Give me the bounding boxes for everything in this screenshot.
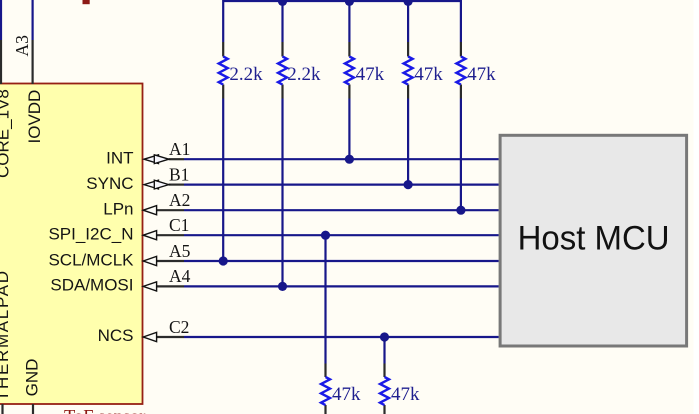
svg-text:A5: A5 [169,241,191,261]
svg-text:C1: C1 [169,215,189,235]
svg-text:47k: 47k [332,384,361,405]
svg-text:SCL/MCLK: SCL/MCLK [48,250,134,269]
svg-text:47k: 47k [356,64,385,85]
svg-text:B1: B1 [169,164,189,184]
svg-text:SDA/MOSI: SDA/MOSI [50,276,133,295]
svg-text:A1: A1 [169,139,190,159]
svg-text:LPn: LPn [103,199,133,218]
svg-text:SPI_I2C_N: SPI_I2C_N [48,224,133,243]
svg-text:C2: C2 [169,317,189,337]
svg-text:GND: GND [23,359,42,397]
svg-text:SYNC: SYNC [86,174,133,193]
svg-text:CORE_1V8: CORE_1V8 [0,89,13,178]
svg-text:2.2k: 2.2k [229,64,263,85]
svg-text:A2: A2 [169,190,190,210]
svg-text:47k: 47k [467,64,496,85]
svg-text:NCS: NCS [98,326,134,345]
svg-text:INT: INT [106,148,133,167]
svg-text:47k: 47k [414,64,443,85]
svg-text:IOVDD: IOVDD [25,90,44,144]
svg-text:47k: 47k [391,384,420,405]
svg-text:A3: A3 [12,35,32,57]
svg-text:2.2k: 2.2k [287,64,321,85]
svg-text:Host MCU: Host MCU [518,219,670,257]
svg-text:ToF sensor: ToF sensor [64,408,145,414]
svg-text:THERMALPAD: THERMALPAD [0,271,12,401]
svg-text:A4: A4 [169,266,191,286]
